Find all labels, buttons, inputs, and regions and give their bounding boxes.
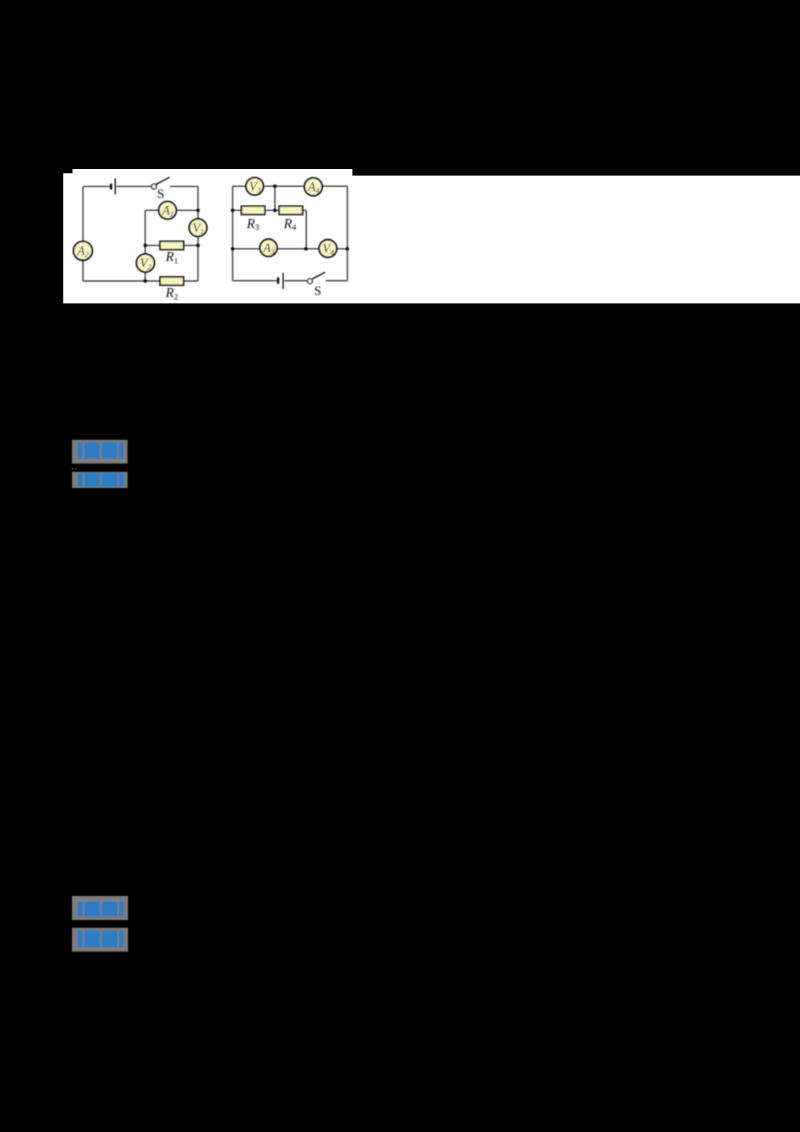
svg-text:S: S — [314, 283, 321, 298]
svg-text:S: S — [157, 186, 164, 201]
